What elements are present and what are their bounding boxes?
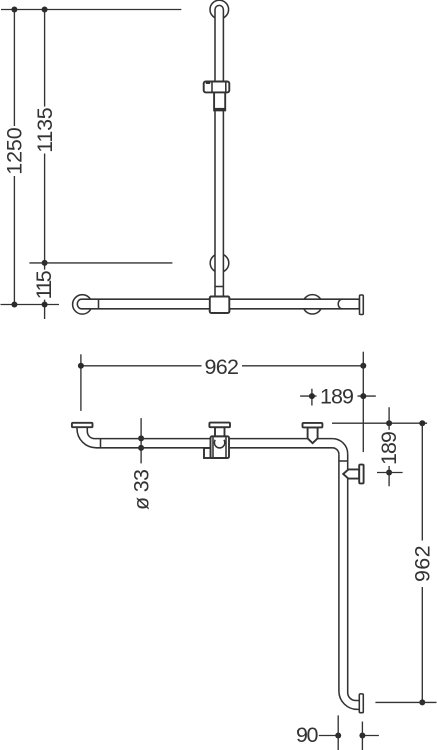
node dot 189a (311.9,396.1) [309, 393, 315, 399]
middle support post [215, 427, 225, 436]
right support crossbar [303, 423, 323, 428]
extension line tube edge (x 338.2) [337, 715, 339, 750]
tick 189 top (x 311.9) [311, 389, 313, 406]
holder ring arc (plan) [214, 440, 225, 448]
back wall extension line (y 423.2) [332, 422, 427, 424]
vertical tube joint line [339, 460, 348, 462]
middle support crossbar [209, 423, 230, 428]
left elbow joint line [100, 439, 102, 448]
horizontal bar [77, 299, 359, 309]
node dot d33a (141.1,438.4) [138, 435, 144, 441]
bar wall flange right [360, 295, 364, 315]
left elbow outer [77, 427, 96, 448]
node dot B1 (44.6,9.5) [42, 7, 48, 13]
vertical rail tube lower [215, 110, 223, 296]
dimension line 962 top [81, 365, 363, 367]
side support bracket (plan) [343, 469, 359, 478]
node dot wall-a (389.1,423.2) [386, 420, 392, 426]
extension line bottom right (y 702.4) [375, 701, 436, 703]
tube joint line [215, 286, 223, 288]
wall rosette bar right [303, 295, 322, 314]
left elbow inner [87, 427, 94, 439]
vertical tube left edge [338, 454, 340, 691]
node dot wall-b (422.3,423.2) [419, 420, 425, 426]
junction block redraw (over bar) [210, 297, 230, 313]
dimension line 962 right (x 422.3) [421, 423, 423, 702]
node dot B3 (44.6,304.5) [42, 302, 48, 308]
extension line bottom (y 304.5) [1, 304, 60, 306]
node dot 90b (362.4,735.5) [359, 733, 365, 739]
svg-text:ø 33: ø 33 [129, 469, 153, 510]
node dot 189c (389.1,472.5) [386, 470, 392, 476]
bar joint line left [98, 299, 100, 309]
slider inner line right [225, 436, 227, 458]
node dot 962b (363.3,365.8) [360, 363, 366, 369]
side support flange [359, 465, 363, 484]
svg-text:90: 90 [296, 723, 319, 747]
extension line top (y 9.5) [1, 9, 181, 11]
corner outer arc [332, 439, 347, 454]
node dot B2 (44.6,262.9) [42, 260, 48, 266]
dimension line 90 [319, 735, 379, 737]
corner inner arc [332, 448, 339, 455]
right support post [308, 427, 318, 443]
svg-text:1135: 1135 [33, 107, 57, 153]
svg-text:962: 962 [204, 355, 239, 379]
extension line middle (y 262.9) [29, 262, 172, 264]
node dot A2 (14.4,304.5) [11, 302, 17, 308]
slider inner line right [225, 82, 227, 93]
slider block bottom bar [214, 108, 226, 111]
bottom elbow inner [348, 693, 360, 701]
dimension line 189 top [300, 395, 376, 397]
node dot 962a (80.9,365.8) [78, 363, 84, 369]
node dot d33b (141.1,447.9) [138, 445, 144, 451]
dimension line 1250 (x 14.4) [13, 10, 15, 305]
shower slider body [204, 82, 230, 93]
leader line dia33 (x 141.1) [140, 418, 142, 463]
extension line side wall bottom (x 362.4) [361, 722, 363, 750]
junction block [210, 297, 230, 313]
bar end cap arc right [338, 299, 342, 309]
slider knob tick [206, 82, 210, 84]
slider body (plan) [211, 436, 230, 458]
node dot 189b (363.3,396.1) [360, 393, 366, 399]
svg-text:1250: 1250 [3, 127, 27, 175]
bottom elbow outer [339, 691, 359, 709]
rail tube bottom edge [96, 447, 332, 449]
slider lower block [214, 92, 225, 110]
mask for 1250 label gap [6, 126, 23, 176]
vertical tube right edge [347, 454, 349, 693]
dimension line 189 right (x 389.1) [388, 407, 390, 486]
left wall flange (plan) [72, 423, 93, 427]
svg-text:115: 115 [32, 270, 56, 299]
node dot 90a (338.2,735.5) [335, 733, 341, 739]
slider inner line left [212, 436, 214, 458]
vertical rail tube upper [215, 5, 223, 81]
rail tube top edge [95, 438, 333, 440]
node dot 962c (422.3,702.4) [419, 699, 425, 705]
wall rosette top [210, 0, 229, 19]
svg-text:962: 962 [410, 545, 434, 582]
tick 189 right (y 472.5) [377, 472, 403, 474]
extension line 962 left (x 80.9) [80, 354, 82, 411]
holder grip (plan) [204, 448, 211, 458]
dimension line 1135/115 (x 44.6) [44, 10, 46, 320]
wall rosette bar left [73, 295, 92, 314]
side wall extension line (x 363.3) [362, 352, 364, 452]
bottom wall flange [359, 694, 363, 713]
svg-text:189: 189 [377, 431, 401, 465]
svg-text:189: 189 [320, 385, 354, 409]
node dot A1 (14.4,9.5) [11, 7, 17, 13]
slider divider line [211, 82, 213, 93]
wall rosette mid [210, 254, 229, 273]
